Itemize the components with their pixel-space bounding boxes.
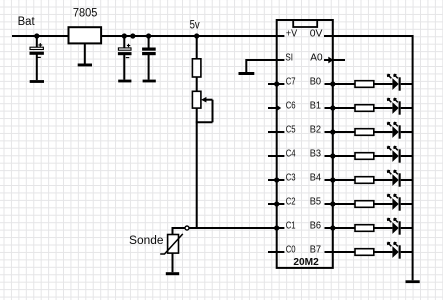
node terminal circle (185, 226, 189, 230)
svg-text:C5: C5 (286, 124, 296, 135)
resistor and LED row B2 (325, 122, 414, 138)
wire A0 stub (324, 59, 345, 61)
wire pin stub C6 (268, 107, 278, 109)
svg-text:B6: B6 (310, 220, 321, 231)
svg-text:20M2: 20M2 (293, 257, 319, 268)
pin label A0 (310, 52, 323, 63)
svg-text:A0: A0 (310, 52, 323, 63)
arrow output A0 (328, 57, 333, 64)
pin label B5 (310, 196, 321, 207)
pin label B6 (310, 220, 321, 231)
svg-text:B7: B7 (310, 244, 321, 255)
resistor and LED row B6 (325, 218, 414, 234)
label Sonde (129, 235, 164, 247)
resistor and LED row B3 (325, 146, 414, 162)
wire R1 to potentiometer (196, 77, 198, 91)
svg-text:B3: B3 (310, 148, 321, 159)
ground electrolytic capacitor (118, 80, 131, 83)
wire main 5v rail (12, 35, 284, 37)
pin label B3 (310, 148, 321, 159)
svg-text:0V: 0V (310, 28, 323, 39)
svg-text:B2: B2 (310, 124, 321, 135)
regulator 7805 (69, 27, 102, 43)
wire pin stub C4 (268, 155, 284, 157)
pin label C3 (286, 172, 296, 183)
ground battery (30, 80, 44, 83)
ground thermistor (166, 272, 179, 275)
pin label C0 (286, 244, 296, 255)
resistor R1 (192, 59, 201, 77)
ground ceramic capacitor (143, 80, 156, 83)
pin label B7 (310, 244, 321, 255)
wire thermistor stub (173, 227, 185, 235)
svg-text:Sonde: Sonde (129, 235, 164, 247)
label 5v (190, 20, 200, 32)
thermistor Sonde (160, 234, 183, 272)
wire pin stub C2 (268, 203, 284, 205)
wire pin stub C5 (268, 131, 284, 133)
svg-text:B5: B5 (310, 196, 321, 207)
node junction dot 5v (194, 33, 199, 38)
ground 7805 (78, 64, 92, 67)
ground 0V rail (406, 280, 420, 283)
node dot B5 (330, 201, 335, 206)
wire SI to ground (246, 59, 284, 72)
svg-text:SI: SI (285, 52, 293, 63)
svg-text:B4: B4 (310, 172, 321, 183)
pin label C2 (286, 196, 296, 207)
node dot B6 (330, 225, 335, 230)
label 7805 (73, 7, 98, 19)
node dot B0 (330, 81, 335, 86)
IC notch (293, 20, 317, 27)
wire pin stub C7 (268, 83, 284, 85)
wire pin stub C0 (268, 251, 284, 253)
wiper arrow potentiometer (196, 97, 213, 122)
capacitor ceramic (143, 36, 156, 80)
pin label B0 (310, 76, 321, 87)
resistor and LED row B1 (325, 98, 414, 114)
svg-text:C1: C1 (286, 220, 296, 231)
node junction dot ceramic capacitor (146, 33, 151, 38)
arrow input C6 (276, 105, 281, 111)
pin label 0V (310, 28, 323, 39)
node dot B4 (330, 177, 335, 182)
pin label B1 (310, 100, 321, 111)
svg-text:C6: C6 (286, 100, 296, 111)
wire potentiometer bottom to sonde node (196, 108, 198, 229)
pin label C7 (286, 76, 296, 87)
wire 7805 ground pin (84, 43, 86, 63)
wire pin stub C1 inner (277, 227, 285, 229)
node junction dot spare (130, 33, 135, 38)
svg-text:C4: C4 (286, 148, 296, 159)
pin label B4 (310, 172, 321, 183)
battery Bat (30, 36, 43, 80)
resistor and LED row B5 (325, 194, 414, 210)
wire sonde to C1 (189, 227, 277, 229)
wire 0V rail to right (324, 35, 413, 280)
pin label +V (286, 28, 297, 39)
node dot C1 (274, 225, 279, 230)
node dot B1 (330, 105, 335, 110)
svg-text:5v: 5v (190, 20, 200, 32)
svg-text:7805: 7805 (73, 7, 98, 19)
wire 5v drop (196, 36, 198, 59)
node junction dot battery (34, 33, 39, 38)
label 20M2 (293, 257, 319, 268)
pin label C6 (286, 100, 296, 111)
IC U1 20M2 body (277, 20, 333, 268)
svg-text:B0: B0 (310, 76, 321, 87)
resistor and LED row B4 (325, 170, 414, 186)
potentiometer VR1 (192, 91, 201, 108)
capacitor electrolytic (118, 36, 131, 80)
pin label C5 (286, 124, 296, 135)
resistor and LED row B0 (325, 74, 414, 90)
pin label SI (285, 52, 293, 63)
svg-text:C2: C2 (286, 196, 296, 207)
ground SI (239, 72, 255, 75)
svg-text:Bat: Bat (18, 16, 36, 28)
pin label B2 (310, 124, 321, 135)
svg-text:C0: C0 (286, 244, 296, 255)
pin label C4 (286, 148, 296, 159)
pin label C1 (286, 220, 296, 231)
svg-text:+V: +V (286, 28, 297, 39)
wire pin stub C3 (268, 179, 284, 181)
node dot B3 (330, 153, 335, 158)
svg-text:B1: B1 (310, 100, 321, 111)
node dot C2 (274, 201, 279, 206)
svg-text:C3: C3 (286, 172, 296, 183)
node dot C7 (274, 81, 279, 86)
svg-text:C7: C7 (286, 76, 296, 87)
node junction dot electrolytic capacitor (122, 33, 127, 38)
label Bat (18, 16, 36, 28)
resistor and LED row B7 (325, 242, 414, 258)
node dot B2 (330, 129, 335, 134)
node dot C3 (274, 177, 279, 182)
